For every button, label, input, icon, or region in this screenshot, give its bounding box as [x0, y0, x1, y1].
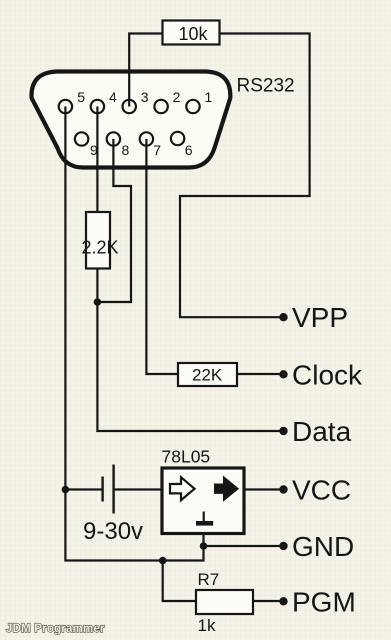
svg-text:5: 5 [77, 89, 85, 105]
wire pin8 jog down to junction node A [101, 139, 131, 302]
pin 2 circle [154, 100, 167, 113]
pin 3 circle [123, 100, 136, 113]
wire pin4 down to resistor 2.2K [96, 107, 98, 213]
svg-text:GND: GND [292, 531, 354, 562]
wire 22K to Clock terminal [237, 373, 284, 375]
junction dot on VCC line [62, 486, 70, 494]
U1 ground tick stem [203, 512, 205, 522]
svg-text:JDM Programmer: JDM Programmer [6, 623, 105, 635]
resistor 2.2K box [86, 212, 110, 269]
pin 1 circle [186, 100, 199, 113]
svg-text:3: 3 [141, 89, 149, 105]
svg-text:6: 6 [185, 142, 193, 158]
svg-text:PGM: PGM [292, 586, 356, 617]
battery BT1 short plate [101, 477, 103, 502]
svg-text:2: 2 [173, 89, 181, 105]
wire VCC junction to battery plus [65, 488, 101, 490]
wire 2.2K bottom through junction to Data terminal [97, 269, 283, 432]
junction node B dot [159, 557, 167, 565]
svg-text:7: 7 [153, 142, 161, 158]
wire GND rail to GND terminal [204, 545, 284, 547]
resistor 10k box [163, 21, 220, 45]
svg-text:1k: 1k [198, 616, 216, 635]
svg-text:2.2K: 2.2K [82, 238, 119, 258]
U1 ground tick bar [196, 521, 213, 526]
pin 5 circle [59, 100, 72, 113]
svg-text:1: 1 [205, 89, 213, 105]
pin 9 circle [75, 132, 88, 145]
terminal dot Data [279, 427, 287, 435]
wire GND node down-left to node B [163, 546, 204, 561]
svg-text:8: 8 [122, 142, 130, 158]
wire pin3 to resistor R-10k left [129, 34, 162, 107]
U1 input arrow (outline) [170, 477, 195, 500]
svg-text:Data: Data [292, 416, 352, 447]
junction node GND dot [200, 542, 208, 550]
pin 4 circle [91, 100, 104, 113]
battery BT1 long plate [112, 465, 114, 514]
wire 10k right to VPP terminal (right side routing) [180, 34, 310, 318]
connector J1 DB9 body [32, 72, 231, 168]
wire node B down to resistor R7 [163, 561, 196, 602]
svg-text:VCC: VCC [292, 475, 351, 506]
terminal dot Clock [279, 370, 287, 378]
terminal dot VPP [279, 313, 287, 321]
svg-text:Clock: Clock [292, 359, 363, 390]
terminal dot VCC [279, 485, 287, 493]
pin 6 circle [171, 132, 184, 145]
wire U1 ground pin down to GND rail [202, 534, 204, 547]
pin 8 circle [107, 132, 120, 145]
terminal dot GND [279, 542, 287, 550]
svg-text:RS232: RS232 [237, 76, 295, 97]
resistor 22K box [178, 363, 237, 386]
wire battery to regulator U1 input [115, 488, 162, 490]
wire R7 to PGM terminal [253, 600, 284, 602]
svg-text:4: 4 [109, 89, 117, 105]
svg-text:9-30v: 9-30v [83, 518, 143, 545]
svg-text:VPP: VPP [292, 302, 348, 333]
wire pin5 down left rail to node B [65, 107, 162, 561]
resistor R7 box [196, 590, 253, 614]
svg-text:22K: 22K [192, 366, 223, 385]
junction node A dot [94, 298, 102, 306]
wire U1 output to VCC terminal [244, 488, 284, 490]
svg-text:R7: R7 [198, 570, 220, 589]
svg-text:78L05: 78L05 [162, 447, 211, 467]
wire pin7 down to resistor 22K [146, 139, 178, 374]
regulator U1 78L05 box [162, 468, 244, 534]
U1 output arrow (solid) [215, 477, 239, 501]
pin 7 circle [140, 132, 153, 145]
svg-text:10k: 10k [179, 24, 209, 44]
terminal dot PGM [279, 597, 287, 605]
